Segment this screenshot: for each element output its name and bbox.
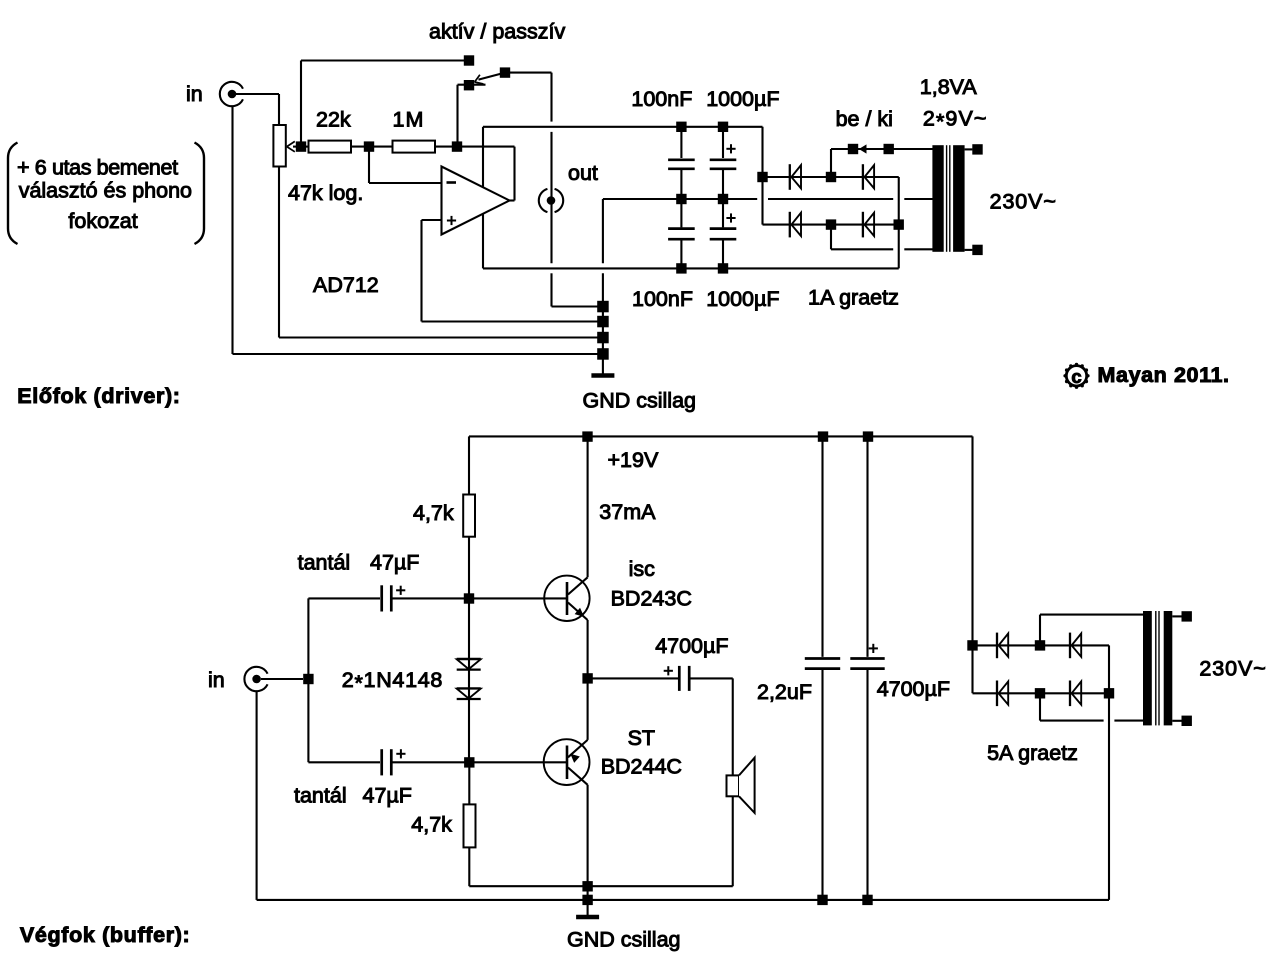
- svg-text:4,7k: 4,7k: [411, 812, 452, 836]
- svg-text:1000µF: 1000µF: [706, 87, 779, 111]
- svg-text:választó és phono: választó és phono: [19, 178, 192, 202]
- svg-text:GND csillag: GND csillag: [567, 927, 681, 951]
- svg-text:47µF: 47µF: [363, 783, 412, 807]
- svg-text:1000µF: 1000µF: [706, 287, 779, 311]
- svg-text:+19V: +19V: [608, 448, 659, 472]
- svg-text:AD712: AD712: [313, 273, 379, 297]
- svg-text:1,8VA: 1,8VA: [920, 75, 978, 99]
- svg-text:aktív / passzív: aktív / passzív: [429, 19, 565, 43]
- svg-text:isc: isc: [629, 557, 656, 581]
- svg-text:out: out: [568, 161, 598, 185]
- svg-text:4,7k: 4,7k: [413, 501, 454, 525]
- svg-text:Mayan 2011.: Mayan 2011.: [1098, 363, 1230, 387]
- svg-text:22k: 22k: [316, 108, 351, 132]
- svg-text:2,2uF: 2,2uF: [757, 680, 812, 704]
- svg-text:GND csillag: GND csillag: [583, 389, 697, 413]
- svg-text:37mA: 37mA: [599, 500, 656, 524]
- svg-text:100nF: 100nF: [631, 87, 692, 111]
- svg-text:47k log.: 47k log.: [288, 181, 363, 205]
- svg-text:fokozat: fokozat: [68, 209, 137, 233]
- svg-text:tantál: tantál: [294, 783, 347, 807]
- svg-text:5A graetz: 5A graetz: [987, 741, 1078, 765]
- svg-text:in: in: [208, 668, 225, 692]
- svg-text:1M: 1M: [393, 108, 425, 132]
- svg-text:47µF: 47µF: [370, 551, 419, 575]
- svg-text:c: c: [1071, 366, 1081, 387]
- svg-text:Előfok (driver):: Előfok (driver):: [17, 384, 180, 408]
- svg-text:4700µF: 4700µF: [877, 677, 950, 701]
- svg-text:230V~: 230V~: [1199, 657, 1266, 681]
- svg-text:2*9V~: 2*9V~: [923, 107, 988, 134]
- svg-text:ST: ST: [628, 726, 655, 750]
- svg-text:be / ki: be / ki: [836, 107, 893, 131]
- svg-text:BD244C: BD244C: [601, 754, 682, 778]
- svg-text:2*1N4148: 2*1N4148: [342, 668, 443, 695]
- svg-text:Végfok (buffer):: Végfok (buffer):: [20, 923, 190, 947]
- svg-text:230V~: 230V~: [990, 190, 1057, 214]
- svg-text:in: in: [186, 82, 203, 106]
- svg-text:tantál: tantál: [298, 551, 351, 575]
- svg-text:1A graetz: 1A graetz: [808, 286, 899, 310]
- svg-text:BD243C: BD243C: [611, 586, 692, 610]
- svg-text:100nF: 100nF: [632, 287, 693, 311]
- svg-text:4700µF: 4700µF: [655, 634, 728, 658]
- svg-text:+ 6 utas bemenet: + 6 utas bemenet: [17, 155, 178, 179]
